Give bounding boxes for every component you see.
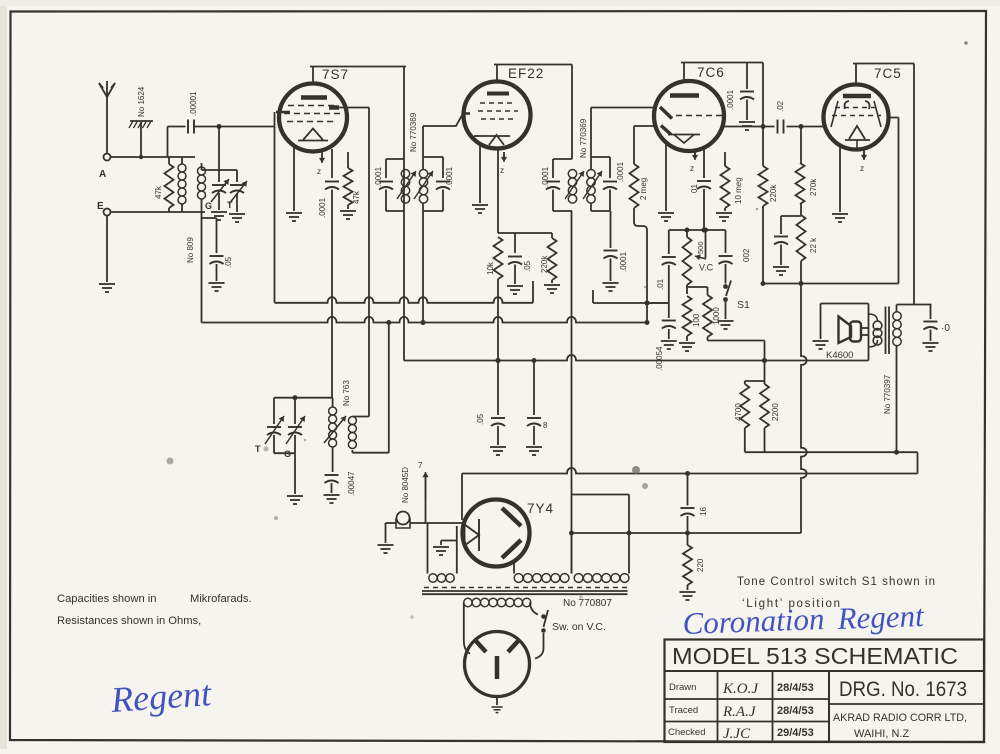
svg-text:No 770397: No 770397 bbox=[883, 374, 892, 414]
svg-text:.0001: .0001 bbox=[616, 161, 625, 182]
svg-text:270k: 270k bbox=[809, 178, 818, 196]
svg-text:·0: ·0 bbox=[941, 323, 950, 334]
svg-text:DRG. No. 1673: DRG. No. 1673 bbox=[839, 678, 967, 701]
svg-text:220k: 220k bbox=[769, 184, 778, 202]
svg-text:A: A bbox=[99, 169, 106, 180]
svg-text:100: 100 bbox=[692, 313, 701, 327]
svg-text:Capacities shown in: Capacities shown in bbox=[57, 593, 157, 605]
svg-text:S1: S1 bbox=[737, 299, 750, 311]
svg-text:T: T bbox=[255, 444, 261, 454]
svg-text:Traced: Traced bbox=[669, 705, 698, 716]
svg-text:Drawn: Drawn bbox=[669, 682, 696, 693]
svg-text:No 770369: No 770369 bbox=[579, 118, 588, 158]
svg-text:Sw. on V.C.: Sw. on V.C. bbox=[552, 621, 606, 633]
svg-text:8: 8 bbox=[543, 421, 548, 430]
svg-text:01: 01 bbox=[690, 184, 699, 193]
svg-text:WAIHI, N.Z: WAIHI, N.Z bbox=[854, 728, 909, 740]
svg-text:.00047: .00047 bbox=[347, 471, 356, 496]
svg-text:E: E bbox=[97, 201, 104, 212]
svg-text:MODEL 513 SCHEMATIC: MODEL 513 SCHEMATIC bbox=[672, 643, 958, 669]
svg-text:Regent: Regent bbox=[109, 673, 213, 720]
svg-text:R.A.J: R.A.J bbox=[722, 704, 757, 720]
svg-text:.05: .05 bbox=[523, 260, 532, 272]
svg-text:EF22: EF22 bbox=[508, 66, 544, 81]
svg-text:.0001: .0001 bbox=[318, 197, 327, 218]
svg-text:7S7: 7S7 bbox=[322, 67, 349, 82]
svg-text:2 meg: 2 meg bbox=[639, 178, 648, 200]
svg-text:Coronation: Coronation bbox=[682, 601, 825, 641]
svg-text:.0001: .0001 bbox=[619, 251, 628, 272]
svg-text:.0001: .0001 bbox=[541, 166, 550, 187]
svg-text:z: z bbox=[860, 164, 864, 173]
svg-text:7: 7 bbox=[418, 461, 423, 470]
svg-text:G: G bbox=[284, 449, 291, 459]
svg-text:No 1624: No 1624 bbox=[137, 86, 146, 117]
svg-text:.0001: .0001 bbox=[445, 166, 454, 187]
svg-text:G: G bbox=[205, 201, 212, 211]
svg-text:AKRAD RADIO CORR LTD,: AKRAD RADIO CORR LTD, bbox=[833, 712, 967, 724]
svg-text:J.JC: J.JC bbox=[723, 726, 751, 742]
svg-text:Regent: Regent bbox=[836, 598, 926, 636]
svg-text:Mikrofarads.: Mikrofarads. bbox=[190, 593, 252, 605]
svg-text:7C6: 7C6 bbox=[697, 65, 725, 80]
svg-text:002: 002 bbox=[742, 248, 751, 262]
svg-text:z: z bbox=[317, 167, 321, 176]
svg-text:.02: .02 bbox=[776, 100, 785, 112]
svg-text:10 meg: 10 meg bbox=[734, 177, 743, 204]
svg-text:.0001: .0001 bbox=[374, 166, 383, 187]
svg-text:500: 500 bbox=[696, 241, 705, 254]
svg-text:K4600: K4600 bbox=[826, 350, 853, 361]
svg-text:28/4/53: 28/4/53 bbox=[777, 705, 814, 717]
svg-text:.05: .05 bbox=[476, 413, 485, 425]
svg-text:29/4/53: 29/4/53 bbox=[777, 727, 814, 739]
svg-text:T: T bbox=[227, 200, 233, 210]
svg-text:47k: 47k bbox=[154, 185, 163, 199]
svg-text:.00001: .00001 bbox=[189, 91, 198, 116]
svg-text:7C5: 7C5 bbox=[874, 66, 902, 81]
svg-text:Resistances shown in Ohms,: Resistances shown in Ohms, bbox=[57, 615, 201, 627]
svg-text:No 770807: No 770807 bbox=[563, 598, 612, 609]
svg-text:4700: 4700 bbox=[734, 403, 743, 421]
svg-text:220k: 220k bbox=[540, 255, 549, 273]
svg-text:47k: 47k bbox=[352, 190, 361, 204]
svg-text:K.O.J: K.O.J bbox=[722, 681, 759, 697]
svg-text:2200: 2200 bbox=[771, 403, 780, 421]
svg-text:16: 16 bbox=[699, 507, 708, 516]
svg-text:220: 220 bbox=[696, 558, 705, 572]
svg-text:No 809: No 809 bbox=[186, 237, 195, 263]
svg-text:22 k: 22 k bbox=[809, 237, 818, 253]
svg-text:7Y4: 7Y4 bbox=[527, 501, 554, 516]
svg-text:No 8045D: No 8045D bbox=[401, 467, 410, 503]
svg-text:V.C: V.C bbox=[699, 263, 714, 273]
svg-text:Tone Control switch S1 shown i: Tone Control switch S1 shown in bbox=[737, 576, 935, 588]
svg-text:10k: 10k bbox=[486, 261, 495, 275]
svg-text:1000: 1000 bbox=[712, 307, 721, 325]
svg-text:No 763: No 763 bbox=[342, 380, 351, 406]
svg-text:z: z bbox=[500, 166, 504, 175]
svg-text:28/4/53: 28/4/53 bbox=[777, 682, 814, 694]
svg-text:.00054: .00054 bbox=[655, 346, 664, 371]
svg-text:Checked: Checked bbox=[668, 727, 706, 738]
svg-text:z: z bbox=[690, 164, 694, 173]
svg-text:No 770369: No 770369 bbox=[409, 112, 418, 152]
svg-text:.05: .05 bbox=[224, 256, 233, 268]
svg-text:.0001: .0001 bbox=[726, 89, 735, 110]
svg-text:.01: .01 bbox=[656, 278, 665, 290]
